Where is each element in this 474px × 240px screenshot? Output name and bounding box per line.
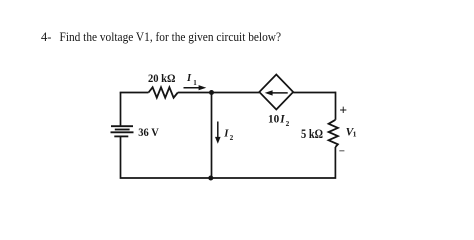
wire right rail lower segment (211, 147, 335, 178)
svg-text:+: + (339, 103, 347, 118)
svg-text:4-: 4- (41, 30, 51, 44)
battery V plate 1 (long) (111, 125, 133, 127)
node B junction dot (bottom middle) (208, 176, 213, 181)
svg-text:Find the voltage V1, for the g: Find the voltage V1, for the given circu… (60, 30, 282, 44)
node A junction dot (top middle) (209, 90, 214, 95)
wire middle branch (node A to node B) (211, 93, 213, 179)
svg-text:I: I (279, 114, 285, 126)
battery V 36V: wire from top rail to battery (120, 93, 122, 127)
battery V plate 3 (long) (111, 131, 134, 133)
svg-text:20 kΩ: 20 kΩ (148, 71, 176, 85)
svg-text:2: 2 (230, 134, 234, 142)
battery V plate 2 (short) (115, 129, 130, 131)
current arrow I1 (184, 87, 201, 89)
wire top-left segment (node top-left corner to R1) (121, 92, 149, 95)
battery V plate 4 (short) (114, 135, 128, 137)
label 10I2 value of dependent source (268, 114, 290, 128)
svg-text:36 V: 36 V (138, 125, 159, 139)
svg-text:I: I (223, 128, 229, 140)
wire bottom-left segment (121, 137, 212, 178)
wire right rail upper segment (335, 92, 337, 120)
label V1 voltage across R2 (346, 127, 357, 139)
svg-text:I: I (186, 73, 192, 84)
svg-text:5 kΩ: 5 kΩ (301, 127, 323, 141)
svg-text:1: 1 (353, 130, 357, 139)
dependent current source U1 diamond 10I2 (259, 75, 293, 110)
svg-text:10: 10 (268, 114, 280, 126)
svg-text:−: − (339, 146, 345, 158)
wire from dependent source to top-right corner (293, 92, 335, 94)
svg-text:1: 1 (193, 79, 197, 87)
problem statement text (41, 30, 281, 44)
resistor R1 20 kOhm (horizontal zigzag) (149, 87, 178, 97)
label I2 (223, 128, 233, 142)
svg-text:2: 2 (286, 119, 290, 128)
arrow inside dependent source (pointing left) (272, 92, 288, 94)
current arrow I2 (downward) (217, 122, 219, 139)
resistor R2 5 kOhm (vertical zigzag) (329, 120, 338, 147)
wire from R1 to dependent source (through node A) (178, 92, 259, 94)
